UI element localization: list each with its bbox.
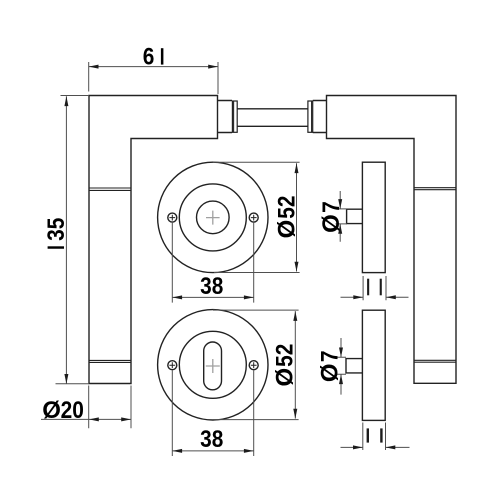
dim O7 side2 arrow lines (340, 338, 342, 395)
rosette 1 left screw (168, 213, 177, 222)
svg-text:6: 6 (143, 43, 155, 70)
rosette 1 screw slots (169, 215, 256, 221)
svg-text:35: 35 (43, 218, 70, 241)
left handle collar ring (232, 101, 237, 132)
dim 38 rosette1 extension lines (172, 223, 253, 303)
right lever handle outline (plan view L-shape) (327, 96, 457, 384)
dim 11 side1 extension lines (363, 276, 386, 300)
svg-text:Ø: Ø (317, 363, 344, 382)
dim O7 side2 extension lines (336, 357, 346, 374)
right collar inner line (311, 101, 313, 132)
dim O7 side1 extension lines (336, 209, 348, 224)
side view rosette 2 plate (362, 310, 385, 420)
rosette 2 outer circle (158, 310, 268, 420)
svg-text:52: 52 (273, 196, 300, 219)
dim text O52 rosette1 (273, 196, 300, 239)
dim 11 side1 arrow lines (341, 296, 409, 298)
dim O52 rosette1 arrows (295, 163, 299, 173)
dim O7 side1 arrows (338, 199, 342, 209)
dim 11 side1 text bars (367, 279, 369, 296)
dim O20 line (41, 418, 131, 420)
rosette 2 middle circle (179, 331, 246, 398)
dim O7 side1 arrow lines (339, 191, 341, 242)
right grip upper joint line (414, 188, 456, 190)
rosette 2 left screw (168, 361, 177, 370)
svg-text:Ø: Ø (42, 397, 61, 424)
right handle neck (313, 101, 327, 133)
dim 135 arrows (64, 96, 68, 106)
dim text 135 (43, 218, 70, 249)
dim 38 rosette2 line (172, 450, 253, 452)
rosette 1 center crosshair (206, 211, 220, 225)
spindle bar (237, 109, 308, 127)
svg-text:52: 52 (271, 344, 298, 367)
dim 11 side2 arrows (353, 445, 363, 449)
rosette 1 outer circle (158, 162, 268, 272)
rosette 2 right screw (249, 361, 258, 370)
right handle collar ring (308, 101, 313, 132)
svg-text:38: 38 (200, 273, 223, 300)
rosette 1 middle circle (179, 184, 246, 251)
side view rosette 1 plate (362, 162, 385, 272)
right grip lower joint line (414, 360, 456, 362)
dim O52 rosette1 extension lines (213, 162, 300, 272)
rosette 1 inner circle (197, 201, 230, 234)
rosette 2 screw slots (169, 362, 256, 368)
dim text O7 side1 (318, 201, 345, 233)
dim O52 rosette1 line (296, 163, 298, 271)
dim 11 side2 arrow lines (341, 446, 410, 448)
svg-text:Ø: Ø (274, 220, 301, 239)
side view 1 spindle stub (347, 209, 363, 223)
left grip lower joint line (89, 360, 131, 362)
left lever handle outline (plan view L-shape) (89, 96, 218, 384)
dim 38 rosette2 arrows (172, 449, 182, 453)
dim O20 arrows (89, 417, 99, 421)
dim 38 rosette1 arrows (172, 295, 182, 299)
svg-text:Ø: Ø (272, 368, 299, 387)
svg-text:20: 20 (61, 397, 84, 424)
dim O52 rosette2 line (294, 311, 296, 419)
svg-text:38: 38 (200, 426, 223, 453)
dim 135 line (65, 96, 67, 384)
left grip upper joint line (89, 188, 131, 190)
side view 2 spindle stub (346, 359, 362, 373)
dim 61 extension lines (89, 62, 218, 94)
dim 135 extension lines (56, 96, 90, 384)
rosette 2 keyhole oval (204, 342, 222, 390)
dim O52 rosette2 extension lines (213, 310, 299, 420)
svg-text:Ø: Ø (318, 214, 345, 233)
dim text O52 rosette2 (271, 344, 298, 387)
dim O52 rosette2 arrows (293, 311, 297, 321)
dim 61 line (89, 66, 218, 68)
dim 38 rosette2 extension lines (172, 370, 253, 456)
left handle neck (218, 101, 233, 133)
rosette 2 center crosshair (206, 359, 220, 373)
dim text O7 side2 (316, 351, 343, 383)
svg-text:7: 7 (316, 351, 343, 363)
left collar inner line (233, 101, 235, 132)
dim 11 side2 extension lines (363, 423, 386, 451)
dim 61 arrows (89, 65, 99, 69)
dim 11 side2 text bars (367, 428, 369, 442)
rosette 1 right screw (249, 213, 258, 222)
svg-text:7: 7 (318, 201, 345, 213)
dim 11 side1 arrows (353, 295, 363, 299)
dim 38 rosette1 line (172, 296, 253, 298)
dim O20 extension lines (89, 386, 131, 429)
dim O7 side2 arrows (339, 348, 343, 358)
